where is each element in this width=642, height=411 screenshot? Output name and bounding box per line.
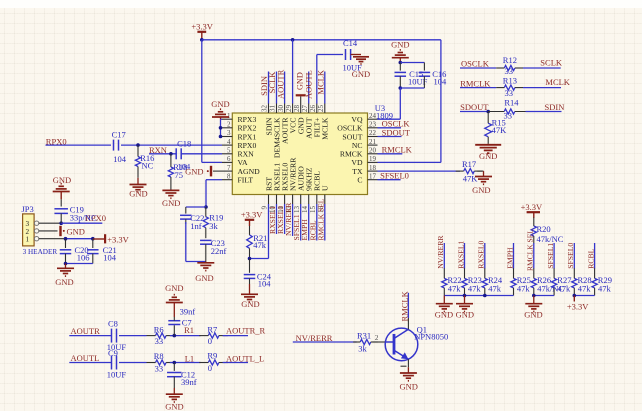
ground below Q1: [399, 367, 417, 391]
svg-text:JP3: JP3: [22, 204, 34, 214]
ground below R22: [435, 296, 453, 320]
net label RXSEL0 under U3: [276, 206, 285, 234]
node junction L1: [173, 361, 177, 365]
wire bank bottom group 2: [534, 295, 554, 297]
net label RMCLK at Q1: [399, 290, 409, 321]
svg-text:GND: GND: [195, 273, 213, 283]
svg-text:R14: R14: [504, 98, 519, 108]
wire R12 to SCLK: [523, 67, 561, 69]
ground below C12: [165, 388, 183, 411]
net label MCLK: [316, 69, 326, 94]
wire pins 1-3 common: [221, 119, 223, 136]
svg-text:22: 22: [369, 129, 377, 137]
svg-text:RMCLK SEL: RMCLK SEL: [316, 198, 325, 240]
wire RXSEL1 pin: [276, 204, 278, 234]
wire JP3 pin 2: [39, 230, 58, 232]
svg-text:31: 31: [269, 105, 277, 113]
wire Q1 emitter: [401, 359, 409, 367]
node junction R26 bottom: [532, 294, 536, 298]
svg-text:RPX2: RPX2: [238, 124, 257, 133]
ground right of R17: [472, 171, 492, 195]
svg-text:13: 13: [293, 206, 301, 214]
wire SFSEL0 pin 17: [378, 179, 401, 181]
svg-text:33: 33: [155, 336, 164, 346]
svg-text:+3.3V: +3.3V: [191, 21, 213, 31]
wire JP3 pin 1: [39, 238, 93, 240]
svg-text:29: 29: [285, 105, 293, 113]
ground below R18: [162, 190, 180, 207]
node junction R21/C24: [248, 257, 252, 261]
svg-text:47k: 47k: [598, 283, 612, 293]
svg-text:8: 8: [227, 172, 231, 180]
node junction RXN/R18: [169, 152, 173, 156]
wire NV/RERR pin: [292, 204, 294, 236]
resistor R21 47k: [247, 226, 268, 259]
wire SDOUT to R14: [460, 111, 488, 113]
net label RPX0 at JP3: [85, 213, 106, 223]
svg-text:47k: 47k: [468, 283, 482, 293]
wire C17 to pin 4: [121, 144, 222, 146]
resistor R23 47k: [462, 268, 482, 295]
net label AOUTR: [275, 69, 285, 99]
wire C20/C21 bottom: [64, 262, 93, 266]
svg-text:R31: R31: [357, 330, 371, 340]
capacitor C12 39nf: [167, 363, 197, 389]
svg-text:28: 28: [293, 105, 301, 113]
svg-text:OSCLK: OSCLK: [337, 124, 363, 133]
svg-text:104: 104: [103, 252, 117, 262]
svg-text:GND: GND: [211, 99, 229, 109]
wire JP3 pin 3: [39, 222, 61, 224]
power +3.3V below R28: [567, 296, 589, 312]
net label RMCLK SEL at R26: [526, 229, 535, 271]
node junction VCC tap: [291, 38, 295, 42]
node junction JP3 pin3/C19: [59, 221, 63, 225]
svg-text:GND: GND: [391, 39, 409, 49]
node junction R24 bottom: [483, 294, 487, 298]
node junction pin3: [219, 135, 223, 139]
U3 top pins 32-25 (SDIN DEM4SCLK AOUTR VCC GND AOUT FILT+ MCLK): [261, 104, 330, 159]
resistor R28 47k: [572, 268, 592, 295]
svg-text:R6: R6: [154, 324, 164, 334]
capacitor C14 10UF: [343, 38, 363, 72]
net label AOUTL_L: [226, 353, 264, 363]
node junction R28 bottom: [573, 294, 577, 298]
JP3 pin circles: [34, 221, 38, 241]
wire RMCLK SEL pin: [324, 204, 326, 241]
svg-text:SCLK: SCLK: [540, 58, 563, 68]
wire RMCLK pin 20: [378, 153, 403, 155]
wire net RXSEL0 to R24: [484, 243, 486, 269]
net label RXN: [149, 145, 167, 155]
svg-text:5: 5: [227, 147, 231, 155]
net label NV/RERR under U3: [284, 202, 293, 236]
svg-text:27: 27: [301, 105, 309, 113]
resistor R17 47K: [456, 159, 483, 184]
wire FILT pin 8 down: [206, 180, 222, 207]
svg-text:AOUTR: AOUTR: [71, 326, 101, 336]
net label EMPH at R25: [505, 247, 514, 269]
resistor R19 3k: [203, 207, 223, 238]
resistor R26 47k/NC: [531, 268, 564, 295]
connector JP3 3 HEADER body: [22, 204, 58, 256]
svg-text:RMCLK SEL: RMCLK SEL: [526, 229, 535, 271]
svg-text:3 HEADER: 3 HEADER: [23, 248, 58, 256]
node junction pin2: [219, 126, 223, 130]
svg-text:OSCLK: OSCLK: [461, 59, 490, 69]
net label NV/RERR at Q1: [296, 333, 333, 343]
ground below R16: [129, 178, 147, 199]
op-amp U3 (CS8414 receiver, body): [232, 103, 393, 195]
wire SFSEL1 pin: [300, 204, 302, 241]
svg-text:GND: GND: [435, 310, 453, 320]
svg-text:47k: 47k: [558, 283, 572, 293]
ground port at AGND pin 7: [185, 166, 222, 177]
svg-text:SFSEL0: SFSEL0: [380, 170, 409, 180]
wire EMPH pin: [308, 204, 310, 241]
net label AOUTR_R: [226, 325, 266, 335]
svg-text:C9: C9: [108, 348, 118, 358]
svg-text:AOUTL: AOUTL: [71, 353, 100, 363]
svg-text:C18: C18: [177, 139, 191, 149]
net label RXSEL1 under U3: [268, 206, 277, 234]
svg-text:17: 17: [369, 172, 377, 180]
svg-text:104: 104: [258, 279, 272, 289]
capacitor C24 104: [244, 259, 272, 289]
resistor R7 0: [199, 324, 228, 346]
wire C15 to VQ pin 24: [378, 88, 401, 119]
svg-text:AOUTR: AOUTR: [275, 69, 285, 99]
wire NV/RERR to R31: [293, 341, 357, 343]
wire C18 to pin 5: [181, 153, 222, 155]
svg-text:0: 0: [208, 363, 212, 373]
svg-text:C7: C7: [182, 318, 192, 328]
svg-text:MCLK: MCLK: [321, 117, 330, 140]
svg-text:32: 32: [261, 105, 269, 113]
wire TX pin 18 to R17: [378, 170, 461, 172]
svg-text:0: 0: [208, 336, 212, 346]
svg-text:2: 2: [227, 121, 231, 129]
svg-text:NV/RERR: NV/RERR: [436, 235, 445, 269]
svg-text:39nf: 39nf: [181, 377, 197, 387]
node junction R23 bottom: [463, 294, 467, 298]
capacitor C9 10UF: [107, 348, 127, 379]
svg-text:3: 3: [26, 220, 30, 228]
net label RPX0: [46, 136, 67, 146]
svg-text:10UF: 10UF: [107, 370, 127, 380]
svg-text:104: 104: [113, 154, 127, 164]
wire Q1 collector: [407, 293, 409, 330]
wire RXSEL0 pin: [284, 204, 286, 234]
wire R31 to Q1 base: [373, 334, 386, 342]
ground right of C14: [351, 55, 371, 80]
resistor R29 47k: [592, 268, 612, 295]
wire AOUTL to C9: [69, 362, 111, 364]
svg-text:NC: NC: [142, 161, 154, 171]
svg-text:GND: GND: [479, 151, 497, 161]
svg-text:RMCLK: RMCLK: [460, 78, 491, 88]
resistor R6 33: [147, 324, 176, 346]
net label SDIN: [259, 76, 269, 96]
svg-text:47K: 47K: [492, 125, 508, 135]
net label AOUTR: [71, 326, 101, 336]
node junction RPX0/R16: [136, 143, 140, 147]
resistor R31 3k: [353, 330, 378, 353]
svg-text:R8: R8: [154, 351, 164, 361]
power +3.3V top: [191, 21, 213, 40]
svg-text:EMPH: EMPH: [505, 247, 514, 269]
svg-text:SDOUT: SDOUT: [382, 127, 411, 137]
net label MCLK row 2: [545, 77, 570, 87]
capacitor C16 104: [419, 63, 447, 89]
svg-text:GND: GND: [129, 189, 147, 199]
svg-text:GND: GND: [55, 277, 73, 287]
wire OSCLK to R12: [460, 67, 496, 69]
svg-text:4: 4: [227, 138, 231, 146]
svg-text:2: 2: [375, 334, 379, 342]
svg-text:GND: GND: [352, 69, 370, 79]
wire AOUT pin 27: [308, 72, 310, 104]
ground port at JP3 pin 2: [61, 226, 85, 237]
svg-text:R9: R9: [207, 351, 217, 361]
svg-text:C8: C8: [108, 318, 118, 328]
resistor R24 47k: [482, 268, 503, 295]
svg-text:GND: GND: [185, 167, 203, 177]
node junction C15 top: [399, 61, 403, 65]
wire C22 down: [186, 222, 206, 262]
wire AOUTR pin 30: [284, 72, 286, 104]
svg-text:+3.3V: +3.3V: [107, 234, 129, 244]
svg-text:FILT: FILT: [238, 176, 254, 185]
svg-text:GND: GND: [472, 185, 490, 195]
svg-text:GND: GND: [456, 310, 474, 320]
resistor R25 47k: [511, 268, 531, 295]
wire SDOUT pin 22: [378, 136, 402, 138]
svg-text:GND: GND: [162, 198, 180, 208]
svg-text:2: 2: [26, 228, 30, 236]
net label RXSEL0 at R24: [477, 240, 486, 268]
svg-text:C17: C17: [112, 130, 126, 140]
resistor R16 NC: [135, 145, 154, 178]
node junction FILT filter: [204, 205, 208, 209]
svg-text:GND: GND: [399, 381, 417, 391]
svg-text:20: 20: [369, 147, 377, 155]
ground below R26: [524, 296, 542, 320]
svg-text:47k: 47k: [253, 240, 267, 250]
svg-text:RMCLK: RMCLK: [399, 290, 409, 321]
wire net SFSEL1 to R27: [553, 243, 555, 269]
resistor R18 75: [168, 154, 187, 191]
svg-text:26: 26: [309, 105, 317, 113]
capacitor C8 10UF: [107, 318, 127, 351]
svg-text:1nf: 1nf: [190, 221, 202, 231]
svg-text:NPN8050: NPN8050: [414, 332, 448, 342]
wire R9 to AOUTL_L: [223, 362, 248, 364]
svg-text:C: C: [357, 176, 362, 185]
wire C15 top rail: [400, 62, 424, 64]
svg-text:3k: 3k: [358, 344, 367, 354]
wire RXN to C18: [149, 153, 176, 155]
svg-text:47k: 47k: [488, 283, 502, 293]
capacitor C7 39nf: [168, 306, 195, 335]
node junction C21 tap: [91, 237, 95, 241]
net label SFSEL0 at R28: [566, 243, 575, 269]
wire RST pin 9: [250, 204, 269, 259]
wire FILT+ pin 26 to C14: [317, 55, 343, 104]
capacitor C17 104: [112, 130, 127, 164]
net label SCLK row 1: [540, 58, 563, 68]
resistor R12 33: [496, 55, 523, 76]
svg-text:33: 33: [155, 363, 164, 373]
svg-text:3: 3: [227, 129, 231, 137]
node junction R1: [173, 334, 177, 338]
svg-text:GND: GND: [165, 283, 183, 293]
wire R7 to AOUTR_R: [223, 335, 248, 337]
svg-text:C14: C14: [343, 38, 358, 48]
node junction +3.3V rail: [200, 38, 204, 42]
svg-text:7: 7: [227, 164, 231, 172]
net label SFSEL1 under U3: [292, 214, 301, 240]
net label AOUTL: [71, 353, 100, 363]
svg-text:18: 18: [369, 164, 377, 172]
svg-text:6: 6: [227, 155, 231, 163]
node junction C20 tap: [64, 237, 68, 241]
resistor R22 47k: [442, 268, 462, 295]
svg-text:47K: 47K: [463, 173, 479, 183]
svg-text:SFSEL0: SFSEL0: [566, 243, 575, 269]
capacitor C21 104: [87, 239, 117, 264]
power +3.3V above R20: [521, 202, 543, 218]
svg-text:47k: 47k: [578, 283, 592, 293]
svg-text:VD: VD: [351, 158, 363, 167]
svg-text:R17: R17: [462, 159, 476, 169]
svg-text:47k: 47k: [517, 283, 531, 293]
svg-text:22nf: 22nf: [211, 246, 227, 256]
capacitor C18 104: [176, 139, 191, 172]
svg-text:33p/NC: 33p/NC: [70, 213, 97, 223]
svg-text:SFSEL1: SFSEL1: [546, 243, 555, 269]
svg-text:104: 104: [434, 77, 448, 87]
wire R14 to SDIN: [526, 111, 562, 113]
net label R1 node: [184, 325, 194, 335]
net label SDIN row 3: [545, 102, 565, 112]
svg-text:R20: R20: [537, 224, 551, 234]
svg-text:23: 23: [369, 121, 377, 129]
capacitor C22 1nf: [180, 207, 204, 231]
svg-text:NC: NC: [352, 141, 363, 150]
net label OSCLK pin 23: [382, 119, 411, 129]
net label RMCLK pin 20: [382, 145, 413, 155]
capacitor C20 106: [60, 239, 90, 264]
net label RCBL under U3: [308, 220, 317, 240]
wire +3.3V rail: [202, 39, 441, 41]
node junction SDOUT/R15: [486, 110, 490, 114]
net label L1 node: [185, 353, 194, 363]
U3 left pins 1-8 (RPX3 RPX2 RPX1 RPX0 RXN VA AGND FILT): [222, 112, 260, 185]
svg-text:14: 14: [301, 206, 309, 214]
wire rail down to VD pin 19: [378, 40, 441, 163]
capacitor C23 22nf: [200, 238, 226, 262]
wire net SFSEL0 to R28: [573, 243, 575, 269]
net label OSCLK row 1: [461, 59, 490, 69]
wire RCBL pin: [316, 204, 318, 241]
wire C9 to R8: [119, 362, 147, 364]
svg-text:AOUTL_L: AOUTL_L: [226, 353, 264, 363]
svg-text:L1: L1: [185, 353, 194, 363]
net label RMCLK row 2: [460, 78, 491, 88]
svg-text:RXSEL1: RXSEL1: [456, 240, 465, 268]
resistor R27 47k: [552, 268, 572, 295]
svg-text:24: 24: [369, 112, 377, 120]
wire MCLK pin 25: [324, 72, 326, 104]
ground above C15/C16: [391, 39, 409, 62]
wire OSCLK pin 23: [378, 127, 402, 129]
ground below R23: [456, 296, 474, 320]
svg-text:AOUTR_R: AOUTR_R: [226, 325, 266, 335]
wire R6 to R7: [170, 335, 201, 337]
svg-text:33: 33: [505, 88, 514, 98]
ground below C24: [241, 284, 260, 309]
svg-text:RCBL: RCBL: [586, 248, 595, 268]
wire C8 to R6: [119, 335, 147, 337]
svg-text:1: 1: [227, 112, 231, 120]
power +3.3V at JP3: [93, 234, 130, 244]
svg-text:3k: 3k: [209, 221, 218, 231]
wire RPX0 to C17: [46, 144, 112, 146]
svg-text:19: 19: [369, 155, 377, 163]
capacitor C15 10UF: [395, 63, 428, 89]
ground below R19/C23: [195, 262, 214, 283]
svg-text:25: 25: [317, 105, 325, 113]
wire bank bottom group 3: [574, 295, 594, 297]
wire RPX0 from JP3 pin 3: [61, 222, 102, 224]
power +3.3V at R21: [241, 210, 263, 227]
svg-text:MCLK: MCLK: [316, 69, 326, 94]
svg-text:39nf: 39nf: [180, 306, 196, 316]
ground above C19: [53, 175, 72, 207]
wire R8 to R9: [170, 362, 201, 364]
ground port at GND pin 28: [296, 72, 306, 103]
svg-text:1: 1: [26, 236, 30, 244]
svg-text:R13: R13: [503, 75, 517, 85]
net label SDOUT row 3: [460, 102, 489, 112]
svg-text:47k: 47k: [448, 283, 462, 293]
net label RXSEL1 at R23: [456, 240, 465, 268]
resistor R8 33: [147, 351, 176, 373]
net label AOUTL: [304, 70, 314, 99]
wire VCC pin 29 to rail: [292, 40, 294, 104]
resistor R15 47K: [485, 112, 507, 144]
wire net EMPH to R25: [513, 243, 515, 269]
svg-text:SDOUT: SDOUT: [460, 102, 489, 112]
net label RMCLK SEL under U3: [316, 198, 325, 240]
svg-text:U: U: [321, 185, 330, 191]
svg-text:AOUTL: AOUTL: [304, 70, 314, 99]
svg-text:GND: GND: [67, 226, 85, 236]
svg-text:SDIN: SDIN: [545, 102, 565, 112]
svg-text:R12: R12: [503, 55, 517, 65]
node junction C15 bottom: [399, 86, 403, 90]
wire rail to VA pin 6: [202, 40, 222, 163]
resistor R9 0: [199, 351, 228, 373]
wire C15/C16 bottom rail: [400, 87, 424, 89]
resistor R13 33: [496, 75, 523, 98]
svg-text:GND: GND: [241, 299, 259, 309]
net label SFSEL1 at R27: [546, 243, 555, 269]
svg-text:GND: GND: [53, 175, 71, 185]
wire SDIN pin 32: [268, 72, 270, 104]
U3 right pins 24-17 (VQ OSCLK SOUT NC RMCK VD TX C): [337, 112, 377, 185]
